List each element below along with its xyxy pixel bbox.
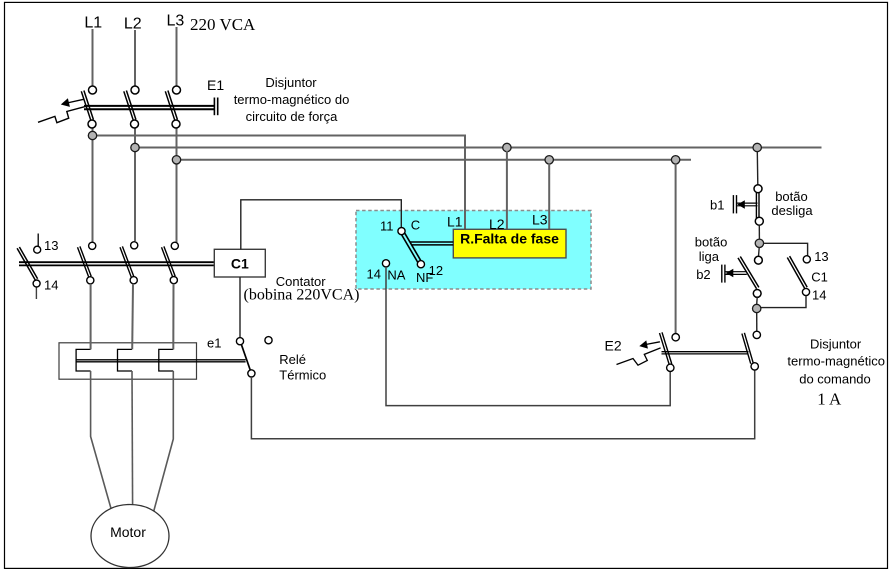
circuit breaker E2 linkage bar — [662, 352, 749, 354]
circuit breaker E1 trip arrow — [61, 98, 84, 107]
wire E2 branch down — [675, 163, 677, 333]
wire b2 to junction — [756, 297, 759, 304]
label E1 — [207, 77, 224, 93]
svg-text:L2: L2 — [489, 216, 505, 232]
label botao liga b2 — [695, 234, 728, 282]
label e1 — [207, 336, 221, 351]
contactor C1 pole L3 contacts — [162, 242, 179, 284]
svg-text:desliga: desliga — [771, 203, 813, 218]
contactor C1 aux contact 13-14 left — [17, 234, 41, 300]
svg-text:13: 13 — [44, 238, 58, 253]
node L3 — [167, 13, 185, 30]
pin label 12 — [429, 263, 443, 278]
wire junction to C1 aux 13 — [764, 243, 808, 255]
pin label 14 left — [44, 278, 58, 293]
wire b1 to junction — [758, 225, 760, 239]
thermal relay heater element pole L2 — [118, 349, 133, 371]
svg-text:L3: L3 — [167, 13, 185, 30]
svg-text:do comando: do comando — [799, 372, 871, 387]
svg-text:botão: botão — [775, 189, 808, 204]
wire L2 tap to relay — [506, 151, 508, 229]
junction dot below b1 — [755, 239, 763, 247]
wire L2 drop — [134, 30, 136, 86]
svg-text:Disjuntor: Disjuntor — [810, 337, 862, 352]
svg-text:b2: b2 — [696, 267, 710, 282]
contactor coil C1 — [214, 249, 265, 277]
circuit breaker E2 trip arrow — [639, 340, 660, 348]
wire b1 branch down — [756, 152, 759, 185]
contactor C1 linkage bar — [19, 262, 214, 265]
svg-text:L3: L3 — [532, 211, 548, 227]
circuit breaker E1 pole L1 contacts — [81, 86, 96, 128]
pin label L1 relay — [447, 214, 463, 230]
wire from relay contact C to contactor coil — [241, 200, 401, 250]
junction dot L2 — [131, 143, 139, 151]
junction dot L2 tap — [503, 143, 511, 151]
pin label 13 aux — [814, 249, 828, 264]
circuit breaker E1 linkage bar — [84, 106, 214, 109]
thermal relay heater element pole L3 — [159, 349, 174, 371]
relay terminal C pin 11 — [398, 228, 405, 235]
value label 1 A — [817, 390, 842, 409]
wire junction to b2 — [758, 248, 761, 257]
wire junction to E2 right pole — [756, 313, 758, 331]
pin label 14 aux — [812, 288, 826, 303]
circuit breaker E1 end terminal — [214, 98, 217, 116]
thermal relay e1 heater box — [59, 343, 197, 379]
pin label 13 left — [44, 238, 58, 253]
pin label 11 — [380, 218, 394, 233]
wire heater L2 to motor — [131, 371, 134, 508]
svg-text:E1: E1 — [207, 77, 224, 93]
thermal relay heater element pole L1 — [76, 349, 91, 371]
svg-text:L1: L1 — [84, 15, 102, 32]
circuit breaker E2 left pole contacts — [660, 332, 680, 371]
svg-text:R.Falta de fase: R.Falta de fase — [460, 230, 559, 246]
svg-text:termo-magnético: termo-magnético — [787, 354, 885, 369]
wire contactor L3 to heater — [172, 284, 174, 350]
value label 220 VCA — [190, 15, 256, 34]
label Disjuntor termo-magnetico do comando — [787, 337, 885, 387]
svg-text:botão: botão — [695, 234, 728, 249]
junction dot L3 tap — [545, 156, 553, 164]
svg-text:14: 14 — [812, 288, 826, 303]
contactor C1 pole L1 contacts — [78, 242, 96, 284]
junction dot L1 — [88, 131, 96, 139]
junction dot b1 branch — [753, 143, 761, 151]
svg-text:circuito de força: circuito de força — [246, 109, 339, 124]
relay changeover lever — [400, 230, 422, 265]
pin label NF — [416, 270, 433, 285]
motor M1 — [91, 505, 169, 568]
svg-text:b1: b1 — [710, 198, 724, 213]
svg-text:(bobina 220VCA): (bobina 220VCA) — [244, 287, 360, 304]
svg-text:Motor: Motor — [110, 524, 146, 540]
svg-text:C1: C1 — [231, 255, 249, 271]
wire contactor L2 to heater — [131, 284, 134, 350]
svg-text:14: 14 — [44, 278, 58, 293]
relay terminal NA pin 14 — [382, 260, 389, 267]
junction dot below b2 — [753, 304, 761, 312]
label E2 — [605, 338, 622, 354]
relay mechanical link to label box — [410, 242, 454, 245]
contactor aux contact C1 13-14 — [787, 256, 810, 296]
svg-text:C: C — [411, 218, 420, 233]
svg-text:Térmico: Térmico — [279, 368, 326, 383]
relay label box R.Falta de fase — [453, 229, 566, 258]
wire L3 drop — [176, 27, 178, 86]
phase fault relay U1 cyan enclosure — [356, 211, 591, 290]
svg-text:E2: E2 — [605, 338, 622, 354]
circuit breaker E1 thermal-magnetic trip symbol — [38, 106, 87, 123]
svg-text:11: 11 — [380, 218, 394, 233]
wire contactor coil to thermal contact e1 — [239, 277, 241, 338]
svg-text:13: 13 — [814, 249, 828, 264]
label Rele Termico — [279, 352, 326, 383]
svg-text:1 A: 1 A — [817, 390, 842, 409]
pin label L3 relay — [532, 211, 548, 227]
svg-text:L1: L1 — [447, 214, 463, 230]
node L1 — [84, 15, 102, 32]
pin label C — [411, 218, 420, 233]
wire L1 phase column — [92, 128, 94, 242]
wire L3 phase column — [176, 128, 178, 242]
svg-text:Disjuntor: Disjuntor — [265, 75, 317, 90]
svg-text:e1: e1 — [207, 336, 221, 351]
svg-text:14: 14 — [367, 267, 381, 282]
circuit breaker E1 pole L2 contacts — [124, 86, 139, 128]
label Disjuntor termo-magnetico do circuito de forca — [234, 75, 350, 124]
pushbutton b2 NO — [722, 256, 763, 297]
wire L2 phase column — [134, 128, 136, 241]
svg-text:L2: L2 — [124, 16, 142, 33]
svg-text:12: 12 — [429, 263, 443, 278]
svg-text:C1: C1 — [811, 269, 828, 284]
thermal relay contact e1 — [236, 337, 272, 377]
circuit breaker E2 thermal-magnetic trip symbol — [617, 348, 661, 365]
node L2 — [124, 16, 142, 33]
wire heater L3 to motor — [154, 371, 174, 512]
pin label 14 relay — [367, 267, 381, 282]
wire L1 drop — [92, 29, 94, 86]
svg-text:Relé: Relé — [279, 352, 306, 367]
circuit breaker E1 pole L3 contacts — [165, 86, 180, 128]
svg-text:NA: NA — [387, 268, 405, 283]
svg-text:liga: liga — [699, 249, 720, 264]
thermal relay mechanical link — [76, 360, 246, 362]
relay terminal NF pin 12 — [417, 261, 424, 268]
wire heater L1 to motor — [91, 371, 112, 512]
pin label NA — [387, 268, 405, 283]
wire contactor L1 to heater — [90, 284, 92, 350]
svg-text:220 VCA: 220 VCA — [190, 15, 256, 34]
label C1 aux — [811, 269, 828, 284]
junction dot E2 branch — [671, 156, 679, 164]
wire rail from L3 to E2 branch — [177, 159, 692, 161]
pushbutton b1 NC — [733, 185, 763, 226]
circuit breaker E2 right pole contacts — [742, 331, 761, 370]
label botao desliga — [771, 189, 813, 218]
svg-text:termo-magnético do: termo-magnético do — [234, 92, 350, 107]
pin label L2 relay — [489, 216, 505, 232]
wire rail from L2 across to right — [135, 147, 822, 149]
wire L3 tap to relay — [548, 163, 550, 229]
label Contator (bobina 220VCA) — [244, 274, 360, 304]
wire C1 aux 14 to junction — [761, 296, 806, 308]
contactor C1 pole L2 contacts — [120, 242, 138, 284]
label b1 — [710, 198, 724, 213]
junction dot L3 — [172, 156, 180, 164]
wire rail from L1 to relay L1 terminal — [93, 136, 466, 230]
wire e1 to E2 right pole return — [251, 370, 754, 439]
wire relay NA to E2 left pole return — [386, 267, 670, 406]
